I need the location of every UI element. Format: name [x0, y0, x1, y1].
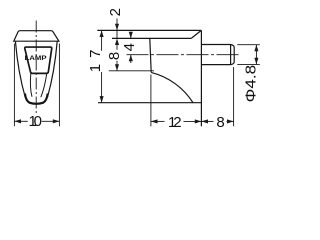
dimension line 12 — [151, 120, 165, 122]
dimension 17 — [101, 30, 103, 50]
svg-text:8: 8 — [106, 52, 123, 60]
svg-text:2: 2 — [107, 8, 124, 16]
extension line for dim 12 left — [150, 75, 152, 127]
side view bottom arc — [151, 72, 193, 102]
side view top face line with left extension — [97, 29, 201, 31]
extension lines for pin diameter — [237, 44, 259, 46]
front view raised panel — [25, 47, 52, 73]
extension line for dim 8 bottom — [109, 70, 154, 72]
side view bottom line with left extension — [98, 102, 201, 104]
svg-text:Φ4.8: Φ4.8 — [242, 65, 259, 103]
front view lid outline — [14, 31, 59, 42]
front view body outline — [15, 41, 25, 97]
dimension 4 — [130, 34, 132, 39]
svg-text:4: 4 — [121, 43, 138, 51]
side view front edge — [150, 38, 151, 72]
side view chamfer — [191, 30, 201, 38]
extension line left of dim 10 — [13, 44, 15, 127]
side view right edge with bottom extension — [200, 30, 202, 126]
svg-text:LAMP: LAMP — [25, 55, 48, 62]
dimension line 8 bottom — [201, 120, 213, 122]
dimension line diameter 4.8 — [255, 45, 257, 65]
dimension line 10 — [14, 120, 27, 122]
centerline front view — [35, 21, 37, 116]
side view step line with left extension — [112, 37, 191, 39]
svg-text:8: 8 — [216, 114, 224, 131]
pin outline — [201, 45, 234, 65]
side view centerline — [127, 54, 241, 56]
svg-text:17: 17 — [87, 44, 104, 73]
dimension 8 vertical — [115, 38, 119, 45]
front view inner cavity line — [30, 73, 32, 97]
pin chamfer line — [230, 45, 232, 65]
extension line for dim 8 bottom right — [233, 67, 235, 126]
extension line right of dim 10 — [58, 44, 60, 127]
